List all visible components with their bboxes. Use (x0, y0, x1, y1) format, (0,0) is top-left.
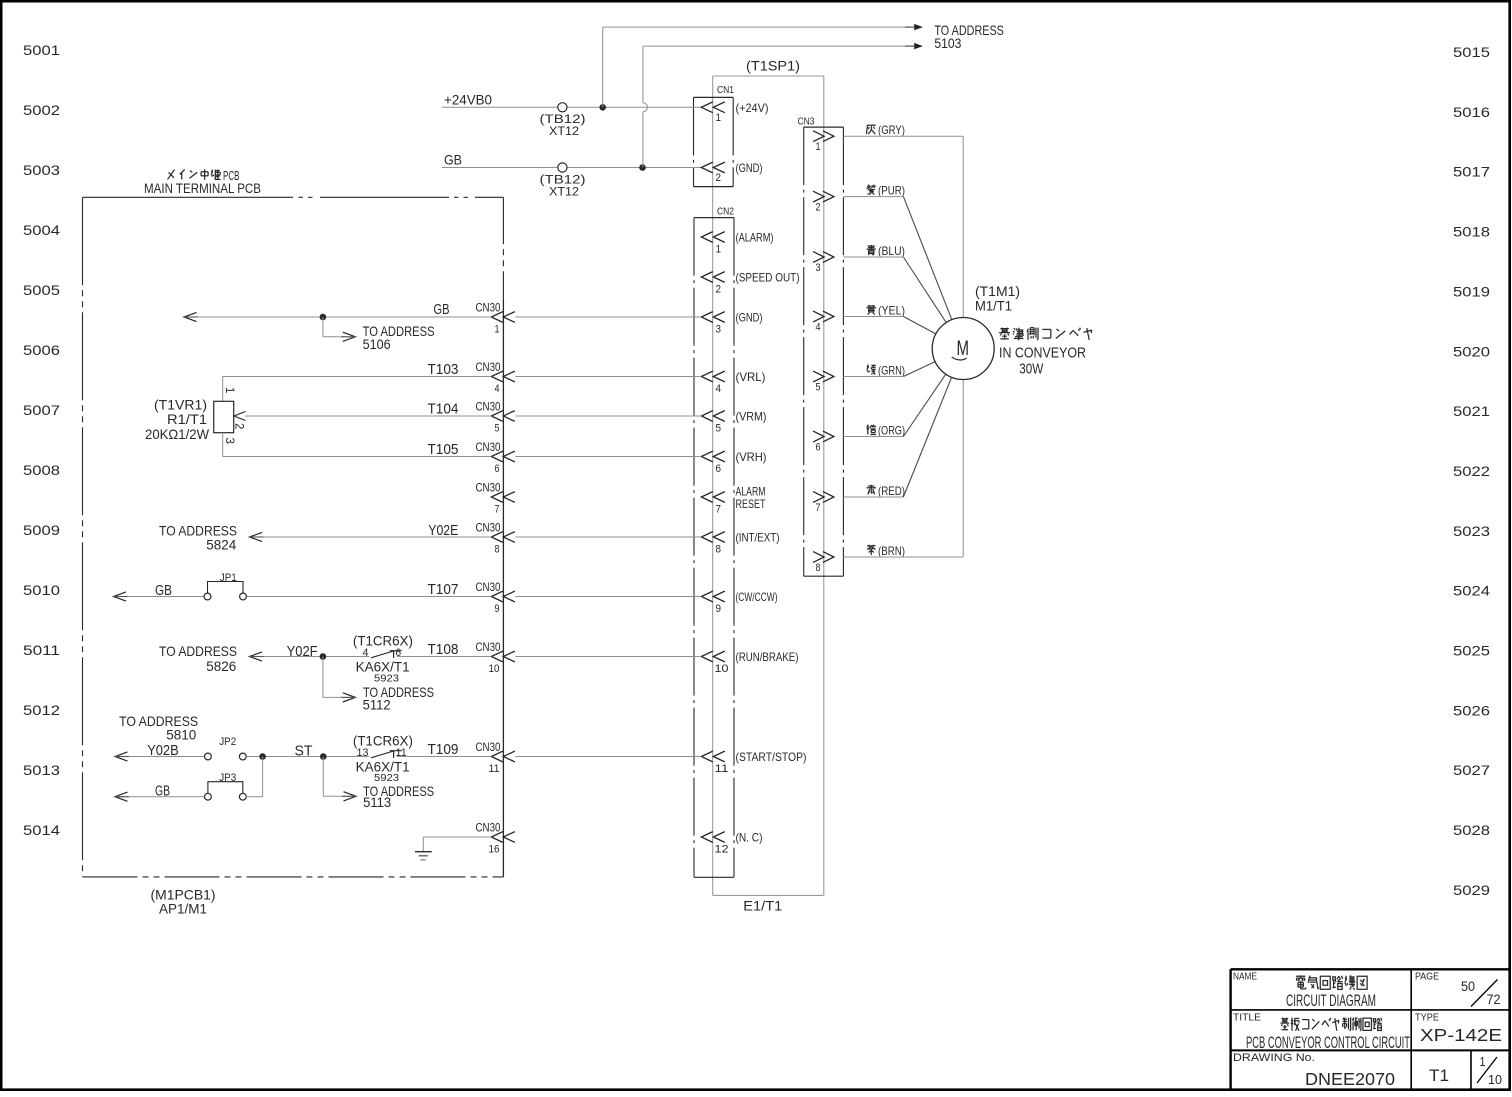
svg-text:CIRCUIT DIAGRAM: CIRCUIT DIAGRAM (1286, 991, 1376, 1010)
svg-text:5005: 5005 (23, 282, 60, 298)
svg-text:GB: GB (444, 152, 462, 168)
svg-text:3: 3 (816, 262, 821, 274)
svg-text:(BLU): (BLU) (878, 244, 905, 258)
svg-text:(TB12): (TB12) (540, 114, 586, 126)
svg-text:(GND): (GND) (736, 311, 763, 325)
svg-text:5014: 5014 (23, 822, 60, 838)
svg-text:T108: T108 (428, 641, 459, 658)
svg-text:(INT/EXT): (INT/EXT) (736, 531, 780, 545)
svg-text:(VRL): (VRL) (736, 370, 766, 384)
svg-text:ST: ST (295, 743, 313, 760)
svg-text:TITLE: TITLE (1233, 1013, 1261, 1024)
svg-text:CN30: CN30 (476, 740, 501, 754)
svg-text:(SPEED OUT): (SPEED OUT) (736, 271, 800, 285)
svg-text:9: 9 (495, 603, 500, 615)
svg-text:10: 10 (489, 663, 500, 675)
svg-text:5027: 5027 (1453, 762, 1490, 778)
svg-text:5020: 5020 (1453, 343, 1490, 359)
svg-text:5106: 5106 (363, 336, 391, 352)
svg-text:(T1CR6X): (T1CR6X) (353, 732, 413, 748)
svg-text:5: 5 (716, 423, 722, 435)
svg-text:6: 6 (816, 442, 821, 454)
svg-text:NAME: NAME (1233, 972, 1257, 983)
svg-text:5: 5 (495, 423, 500, 435)
svg-text:TYPE: TYPE (1415, 1013, 1439, 1024)
svg-text:Y02E: Y02E (428, 522, 458, 539)
svg-text:(RED): (RED) (878, 484, 905, 498)
svg-text:R1/T1: R1/T1 (167, 411, 207, 427)
svg-text:CN30: CN30 (476, 360, 501, 374)
svg-text:12: 12 (715, 844, 729, 856)
svg-text:+24VB0: +24VB0 (444, 92, 492, 108)
svg-text:GB: GB (434, 301, 450, 318)
svg-text:T1: T1 (1429, 1067, 1449, 1085)
svg-text:T105: T105 (428, 441, 459, 458)
svg-text:AP1/M1: AP1/M1 (159, 901, 207, 917)
svg-text:5023: 5023 (1453, 523, 1490, 539)
svg-text:5025: 5025 (1453, 643, 1490, 659)
svg-text:5017: 5017 (1453, 164, 1490, 180)
svg-text:CN30: CN30 (476, 440, 501, 454)
svg-text:1: 1 (716, 112, 722, 124)
svg-text:(VRM): (VRM) (736, 410, 767, 424)
svg-text:RESET: RESET (736, 497, 766, 511)
svg-text:PAGE: PAGE (1415, 972, 1439, 983)
svg-text:11: 11 (489, 763, 500, 775)
svg-text:4: 4 (816, 322, 821, 334)
svg-text:5019: 5019 (1453, 283, 1490, 299)
svg-text:CN30: CN30 (476, 481, 501, 495)
svg-text:6: 6 (396, 647, 402, 659)
svg-text:CN30: CN30 (476, 580, 501, 594)
svg-text:5028: 5028 (1453, 822, 1490, 838)
svg-text:5011: 5011 (23, 642, 60, 658)
svg-text:11: 11 (715, 763, 729, 775)
svg-text:8: 8 (495, 544, 500, 556)
svg-text:5008: 5008 (23, 462, 60, 478)
svg-text:5010: 5010 (23, 582, 60, 598)
svg-text:CN30: CN30 (476, 521, 501, 535)
svg-text:4: 4 (495, 383, 500, 395)
svg-text:(RUN/BRAKE): (RUN/BRAKE) (736, 650, 799, 664)
svg-text:CN3: CN3 (798, 117, 815, 128)
svg-text:Y02F: Y02F (287, 643, 318, 660)
svg-text:72: 72 (1487, 991, 1501, 1007)
svg-text:(ALARM): (ALARM) (736, 231, 774, 245)
svg-text:2: 2 (716, 284, 722, 296)
svg-text:1: 1 (816, 141, 821, 153)
svg-text:5029: 5029 (1453, 882, 1490, 898)
svg-text:5009: 5009 (23, 522, 60, 538)
svg-text:XT12: XT12 (549, 126, 579, 138)
svg-text:5021: 5021 (1453, 403, 1490, 419)
svg-text:Y02B: Y02B (147, 742, 179, 759)
svg-text:CN30: CN30 (476, 640, 501, 654)
svg-text:5923: 5923 (374, 673, 399, 684)
svg-text:5810: 5810 (166, 726, 196, 742)
svg-text:5012: 5012 (23, 702, 60, 718)
svg-text:T107: T107 (428, 581, 459, 598)
svg-text:13: 13 (357, 747, 369, 759)
svg-text:T109: T109 (428, 741, 459, 758)
svg-text:5018: 5018 (1453, 224, 1490, 240)
svg-text:1: 1 (1480, 1054, 1486, 1069)
svg-text:5003: 5003 (23, 162, 60, 178)
svg-text:2: 2 (716, 172, 722, 184)
svg-text:PCB CONVEYOR CONTROL CIRCUIT: PCB CONVEYOR CONTROL CIRCUIT (1246, 1033, 1410, 1052)
svg-text:M: M (956, 337, 969, 360)
svg-text:KA6X/T1: KA6X/T1 (356, 759, 410, 775)
svg-text:JP3: JP3 (219, 772, 236, 784)
svg-text:IN CONVEYOR: IN CONVEYOR (999, 345, 1086, 362)
svg-text:GB: GB (155, 783, 170, 800)
svg-text:7: 7 (495, 504, 500, 516)
svg-text:(GRY): (GRY) (878, 123, 905, 137)
svg-text:20KΩ1/2W: 20KΩ1/2W (145, 426, 210, 442)
svg-text:(T1CR6X): (T1CR6X) (353, 633, 413, 649)
svg-text:(GND): (GND) (736, 161, 763, 175)
svg-text:50: 50 (1461, 978, 1475, 994)
svg-text:11: 11 (396, 747, 407, 759)
svg-text:(VRH): (VRH) (736, 450, 767, 464)
svg-text:(+24V): (+24V) (736, 101, 769, 115)
svg-text:4: 4 (363, 647, 369, 659)
svg-text:5002: 5002 (23, 102, 60, 118)
svg-text:2: 2 (816, 202, 821, 214)
svg-text:(START/STOP): (START/STOP) (736, 750, 807, 764)
svg-text:5026: 5026 (1453, 702, 1490, 718)
svg-text:CN30: CN30 (476, 400, 501, 414)
svg-text:8: 8 (816, 562, 821, 574)
svg-text:XP-142E: XP-142E (1420, 1025, 1502, 1045)
svg-text:JP1: JP1 (220, 572, 237, 584)
svg-text:5001: 5001 (23, 42, 60, 58)
svg-text:TO ADDRESS: TO ADDRESS (159, 643, 237, 659)
svg-text:(GRN): (GRN) (878, 364, 905, 378)
svg-text:KA6X/T1: KA6X/T1 (356, 659, 410, 675)
svg-text:16: 16 (489, 844, 500, 856)
svg-text:8: 8 (716, 544, 722, 556)
svg-text:DRAWING No.: DRAWING No. (1233, 1052, 1315, 1064)
svg-text:3: 3 (716, 324, 722, 336)
svg-text:5007: 5007 (23, 402, 60, 418)
svg-text:1: 1 (716, 244, 722, 256)
svg-text:5015: 5015 (1453, 44, 1490, 60)
svg-text:(T1SP1): (T1SP1) (746, 58, 800, 74)
svg-text:CN2: CN2 (717, 207, 734, 218)
svg-text:(ORG): (ORG) (878, 424, 905, 438)
svg-text:JP2: JP2 (219, 736, 236, 748)
svg-text:E1/T1: E1/T1 (743, 899, 782, 914)
svg-text:7: 7 (816, 502, 821, 514)
svg-text:1: 1 (495, 324, 500, 336)
svg-text:5016: 5016 (1453, 104, 1490, 120)
svg-text:6: 6 (716, 463, 722, 475)
svg-text:5013: 5013 (23, 762, 60, 778)
svg-text:CN30: CN30 (476, 821, 501, 835)
svg-text:MAIN TERMINAL PCB: MAIN TERMINAL PCB (144, 181, 261, 196)
svg-text:5103: 5103 (934, 35, 961, 51)
svg-text:T104: T104 (428, 401, 459, 418)
svg-text:5113: 5113 (363, 794, 391, 810)
svg-text:4: 4 (716, 383, 722, 395)
svg-text:(YEL): (YEL) (878, 304, 905, 318)
svg-text:3: 3 (223, 438, 235, 444)
svg-text:GB: GB (155, 582, 172, 599)
svg-text:M1/T1: M1/T1 (975, 298, 1012, 314)
svg-text:5004: 5004 (23, 222, 60, 238)
svg-text:XT12: XT12 (549, 186, 579, 198)
svg-text:10: 10 (1488, 1072, 1502, 1087)
svg-text:1: 1 (223, 387, 235, 393)
svg-text:T103: T103 (428, 361, 459, 378)
svg-text:10: 10 (715, 663, 729, 675)
svg-text:5022: 5022 (1453, 463, 1490, 479)
svg-text:(TB12): (TB12) (540, 174, 586, 186)
svg-text:5112: 5112 (363, 696, 391, 712)
svg-text:(N. C): (N. C) (736, 831, 763, 845)
svg-text:30W: 30W (1019, 361, 1044, 378)
svg-text:5024: 5024 (1453, 583, 1490, 599)
svg-text:5824: 5824 (206, 537, 236, 553)
svg-text:5923: 5923 (374, 773, 399, 784)
svg-text:2: 2 (233, 423, 245, 429)
svg-text:5006: 5006 (23, 342, 60, 358)
svg-text:CN1: CN1 (717, 85, 734, 96)
svg-text:(PUR): (PUR) (878, 184, 905, 198)
svg-text:9: 9 (716, 603, 722, 615)
svg-text:5: 5 (816, 382, 821, 394)
svg-text:6: 6 (495, 463, 500, 475)
svg-text:DNEE2070: DNEE2070 (1305, 1069, 1395, 1089)
svg-text:7: 7 (716, 504, 722, 516)
svg-text:5826: 5826 (206, 658, 236, 674)
svg-text:(CW/CCW): (CW/CCW) (736, 590, 778, 604)
svg-text:(BRN): (BRN) (878, 544, 905, 558)
svg-text:CN30: CN30 (476, 301, 501, 315)
